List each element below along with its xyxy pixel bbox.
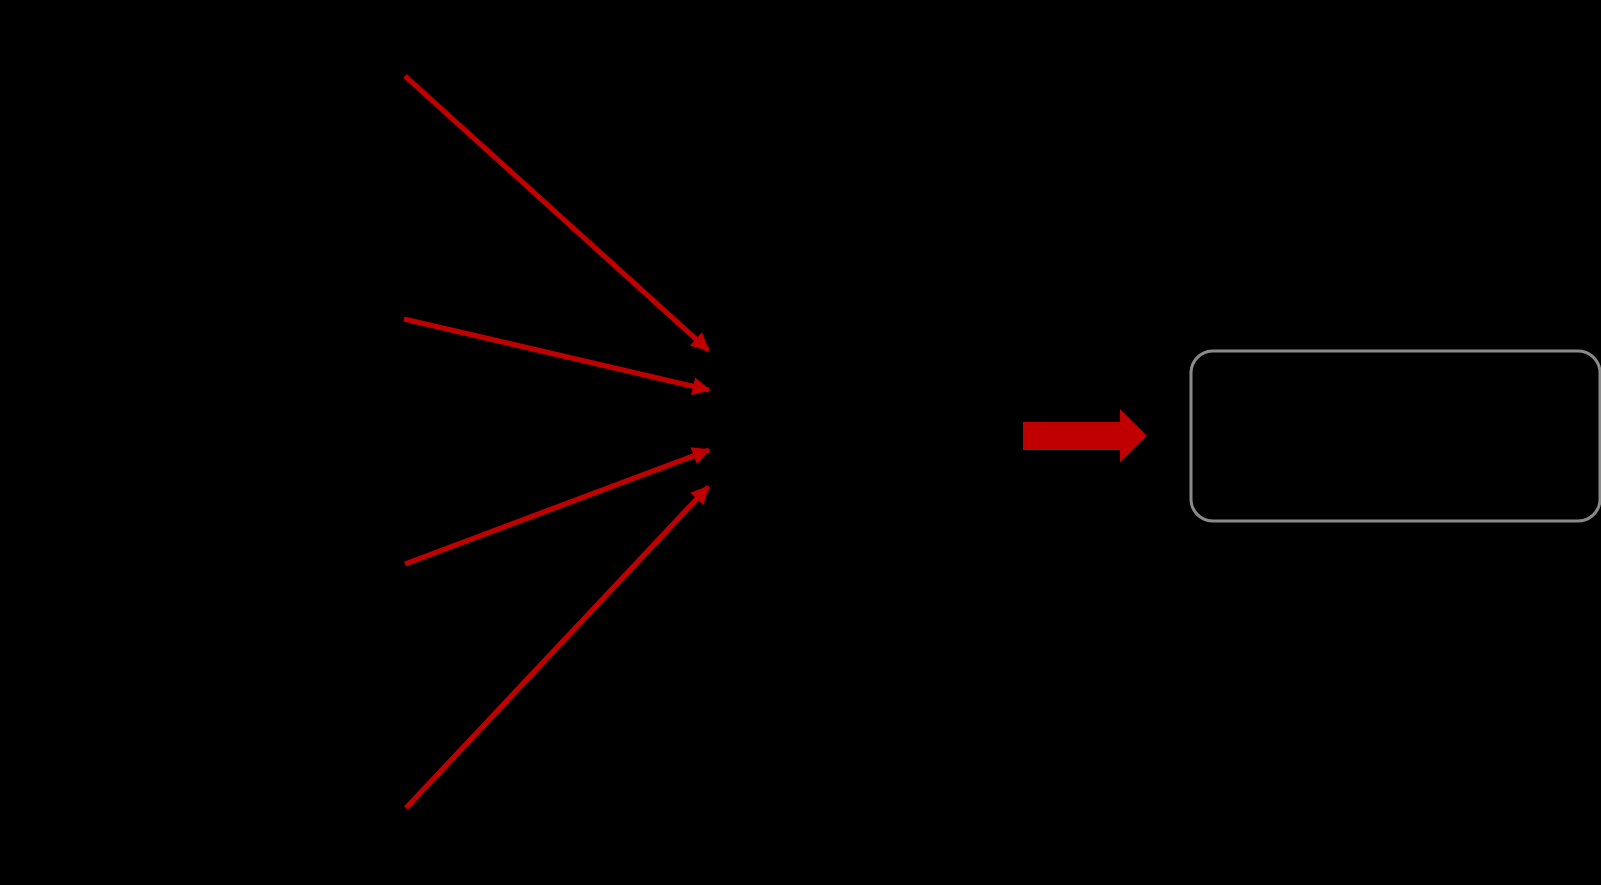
block arrow — [1023, 409, 1147, 463]
arrow 3 — [405, 450, 709, 564]
arrow 1 (top-left to center) — [405, 76, 708, 350]
rounded rectangle — [1191, 351, 1600, 521]
arrow 4 (bottom-left to center) — [406, 487, 708, 808]
arrow 2 — [404, 319, 709, 390]
